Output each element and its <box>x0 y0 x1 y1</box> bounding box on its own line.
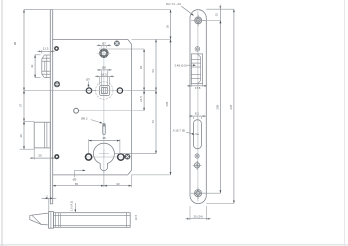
svg-text:Ø7: Ø7 <box>102 41 106 45</box>
svg-text:21.5: 21.5 <box>139 96 143 102</box>
svg-text:37: 37 <box>19 104 23 108</box>
svg-text:Ø8.2: Ø8.2 <box>81 116 88 120</box>
svg-text:72: 72 <box>151 120 155 124</box>
svg-text:11.5: 11.5 <box>43 46 49 50</box>
svg-text:15: 15 <box>215 13 219 17</box>
svg-text:8.2: 8.2 <box>195 111 199 115</box>
svg-text:98: 98 <box>13 42 17 46</box>
svg-text:32: 32 <box>30 64 34 68</box>
svg-text:1.6 (4.2): 1.6 (4.2) <box>69 201 73 211</box>
svg-text:65: 65 <box>75 182 79 186</box>
svg-text:Din 74 - A3: Din 74 - A3 <box>166 2 181 6</box>
svg-text:Ø7: Ø7 <box>86 78 90 82</box>
svg-text:20: 20 <box>38 153 42 157</box>
svg-text:235: 235 <box>229 104 233 109</box>
svg-text:40: 40 <box>139 65 143 69</box>
svg-text:17.8: 17.8 <box>195 86 201 90</box>
svg-text:16.5: 16.5 <box>101 72 107 76</box>
svg-text:3.48 (0.5): 3.48 (0.5) <box>174 63 186 67</box>
svg-text:20 (24): 20 (24) <box>194 215 203 219</box>
svg-text:33: 33 <box>116 182 120 186</box>
svg-text:63: 63 <box>151 69 155 73</box>
svg-text:38: 38 <box>102 136 106 140</box>
svg-text:165: 165 <box>165 101 169 106</box>
svg-text:36: 36 <box>166 25 170 29</box>
svg-text:A 16.7 (9): A 16.7 (9) <box>173 128 186 132</box>
svg-text:30: 30 <box>19 134 23 138</box>
svg-text:Ø8: Ø8 <box>102 66 106 70</box>
svg-text:208: 208 <box>215 104 219 109</box>
svg-text:16.5: 16.5 <box>134 214 138 220</box>
